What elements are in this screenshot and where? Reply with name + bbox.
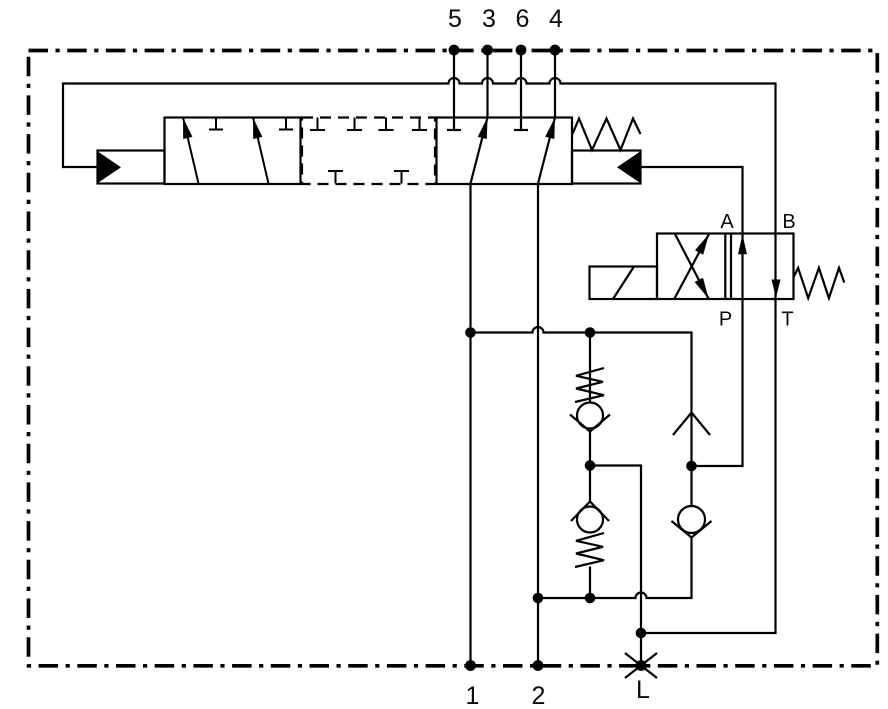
svg-text:4: 4 [549, 5, 563, 33]
svg-text:3: 3 [482, 5, 496, 33]
svg-text:A: A [720, 211, 734, 233]
svg-text:1: 1 [466, 682, 480, 709]
svg-text:L: L [636, 676, 650, 704]
svg-text:5: 5 [448, 5, 462, 33]
svg-text:2: 2 [532, 682, 546, 709]
svg-text:T: T [781, 309, 793, 331]
svg-text:B: B [782, 211, 795, 233]
svg-text:P: P [719, 309, 732, 331]
svg-text:6: 6 [516, 5, 530, 33]
